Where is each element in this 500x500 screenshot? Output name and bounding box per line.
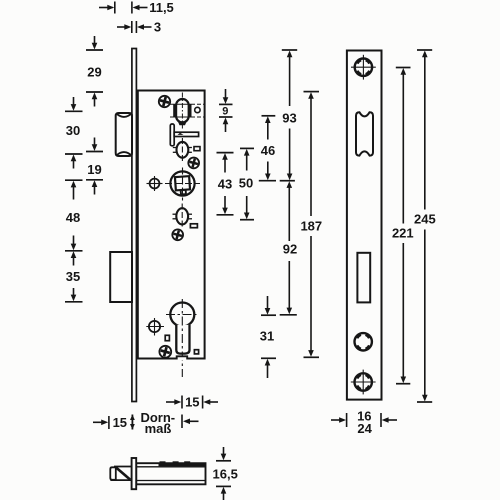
dimension 48	[65, 180, 83, 251]
small hole left of follower	[147, 176, 163, 191]
dimension 16 24	[331, 413, 397, 427]
svg-text:245: 245	[414, 211, 436, 226]
screw S3	[172, 229, 183, 240]
svg-text:92: 92	[283, 242, 297, 257]
crosshair hole	[146, 318, 164, 336]
small square hole D	[194, 350, 198, 354]
svg-text:187: 187	[300, 218, 322, 233]
svg-text:19: 19	[87, 162, 101, 177]
svg-text:93: 93	[282, 110, 296, 125]
svg-text:15: 15	[185, 395, 199, 410]
plate screw top	[351, 55, 376, 80]
svg-text:46: 46	[261, 143, 275, 158]
plate screw middle	[355, 333, 372, 350]
svg-text:43: 43	[218, 177, 232, 192]
svg-text:11,5: 11,5	[149, 0, 174, 15]
plate screw bottom	[351, 370, 376, 395]
section faceplate bar	[132, 458, 137, 489]
dimension 15 right	[166, 396, 218, 409]
dimension 16,5	[216, 447, 231, 500]
dimension 30	[65, 97, 83, 169]
svg-text:16,5: 16,5	[213, 466, 238, 481]
dimension 245	[417, 50, 432, 402]
svg-text:221: 221	[392, 226, 414, 241]
svg-text:24: 24	[357, 421, 372, 436]
small square hole C	[165, 335, 169, 340]
spring hole oval 3	[173, 204, 193, 230]
dimension 187	[304, 92, 320, 358]
screw S4	[159, 346, 171, 358]
svg-text:48: 48	[66, 210, 80, 225]
svg-text:31: 31	[260, 329, 274, 344]
svg-text:30: 30	[66, 123, 80, 138]
dimension 221	[396, 68, 411, 384]
dimension 29	[86, 36, 103, 107]
small round hole	[195, 107, 200, 112]
dimension 92	[280, 181, 297, 315]
dimension 50	[240, 148, 254, 219]
dimension 3	[117, 21, 152, 33]
T-lever	[170, 124, 198, 146]
section latch bevel	[110, 467, 131, 481]
svg-text:9: 9	[222, 106, 228, 118]
euro profile cylinder	[166, 299, 199, 377]
dimension 31	[261, 296, 276, 378]
svg-text:15: 15	[113, 415, 127, 430]
svg-text:3: 3	[154, 20, 161, 35]
dimension 15 left	[93, 415, 135, 430]
bottom notch	[176, 356, 188, 360]
Dornmass leader	[182, 415, 199, 429]
dimension 11,5	[99, 2, 148, 14]
svg-text:29: 29	[87, 65, 101, 80]
screw S1 top	[159, 96, 171, 108]
dimension 9	[219, 89, 233, 132]
dimension 35	[65, 251, 83, 301]
latch oval assembly	[170, 93, 204, 129]
dimension 43	[217, 153, 234, 215]
dimension 93	[280, 50, 298, 181]
svg-text:35: 35	[66, 269, 80, 284]
faceplate strip	[132, 49, 137, 402]
svg-text:maß: maß	[145, 421, 172, 436]
plate deadbolt cutout	[357, 253, 370, 303]
strike plate	[347, 51, 382, 400]
svg-text:50: 50	[239, 176, 253, 191]
lock case	[138, 91, 205, 359]
follower square spindle	[165, 168, 200, 201]
plate latch cutout	[356, 112, 373, 155]
spring hole oval 2	[173, 138, 192, 163]
deadbolt	[110, 252, 132, 302]
latch bolt	[116, 113, 132, 156]
dimension 19	[86, 138, 103, 195]
small rect hole B	[190, 224, 197, 228]
screw S2	[188, 158, 199, 169]
small rect hole A	[194, 147, 200, 151]
dimension 46	[259, 116, 276, 181]
section view body	[136, 461, 205, 484]
